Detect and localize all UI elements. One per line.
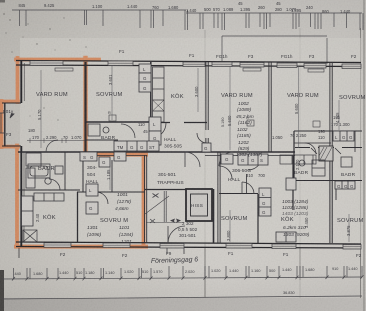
orange bay left edge: [0, 101, 3, 147]
dim line vardrum1: [27, 140, 85, 142]
window F1 kok4: [272, 244, 296, 249]
stair arrows: [170, 219, 175, 224]
top dim line right: [186, 12, 362, 14]
hall304 right wall: [111, 160, 113, 192]
window left apt: [30, 61, 63, 66]
window F3 vardrum2: [240, 63, 264, 68]
door sovrum3: [241, 182, 243, 194]
corner stub below plan: [18, 248, 20, 258]
closet G sovrum2: [139, 73, 151, 82]
slanted ticks bottom dim: [12, 275, 364, 280]
stair top wall: [145, 189, 186, 191]
right column wall: [293, 131, 295, 180]
closet G vardrum2: [202, 143, 211, 152]
window F2 sovrum1: [103, 243, 130, 248]
badr1 right wall: [64, 152, 66, 190]
door vardrum2: [197, 133, 207, 143]
closet G hall305 upper: [149, 117, 161, 131]
orange bottom edge: [16, 245, 146, 249]
closet row G G G sovrum4: [335, 181, 355, 189]
door badr2: [121, 124, 135, 138]
window kok2: [183, 62, 205, 67]
counter kok4 bottom: [276, 232, 296, 242]
party wall apt2/apt3: [268, 62, 270, 152]
door hall306 left: [219, 166, 232, 179]
balcony right side: [326, 38, 328, 64]
fold crease right-center: [299, 28, 301, 298]
orange left-lower vertical: [15, 146, 19, 247]
small x lower: [150, 219, 155, 223]
overall line: [2, 296, 362, 299]
closet row hall304 below corridor: [80, 152, 97, 161]
stair stringer double line: [163, 191, 165, 222]
orange mid horizontal: [82, 153, 146, 157]
fold crease left-center: [204, 30, 206, 298]
small unit text block stair: [178, 221, 198, 238]
left bay bottom jog wall: [2, 145, 21, 147]
right badr2 box: [341, 157, 352, 167]
orange bay bottom jog: [2, 145, 19, 149]
top dim line left: [12, 9, 186, 11]
arrow for F01v: [10, 114, 14, 119]
wall closets right of sovrum2: [150, 62, 152, 122]
fold crease segments in bottom band: [204, 248, 206, 297]
kitchen counter kok4: [280, 155, 316, 164]
dark left page edge bottom: [0, 270, 4, 311]
party wall kok2/vardrum2: [205, 62, 207, 130]
door vardrum1: [46, 140, 58, 152]
party wall apt3/apt4 lower: [329, 152, 331, 243]
door trapphus left: [185, 152, 200, 167]
left bay top jog wall: [2, 102, 21, 104]
party wall apt3/apt4 upper: [329, 62, 331, 152]
entrance porch: [167, 248, 184, 254]
left exterior wall upper: [20, 60, 22, 103]
door trapphus right: [219, 152, 233, 166]
badr door leaf right: [311, 148, 317, 154]
vardrum3 right closet wall: [354, 131, 356, 152]
entrance F9: [160, 244, 184, 249]
window center lines: [30, 63, 361, 247]
door kok1: [49, 179, 60, 190]
badr row top wall right: [294, 130, 362, 132]
badr row mid wall right: [294, 142, 331, 144]
small box kok4 top: [286, 178, 296, 190]
wall stair / sovrum3: [217, 152, 219, 243]
stair bottom landing line: [146, 222, 184, 224]
closet G G S hall306: [238, 154, 268, 165]
stair X mark: [153, 194, 159, 198]
unit number labels: [86, 137, 251, 186]
bottom dim numbers: [15, 267, 358, 295]
balcony left side: [221, 36, 223, 61]
window F2 sovrum4: [343, 245, 361, 250]
window F2 sovrum3: [342, 64, 361, 69]
orange left-upper vertical: [16, 58, 20, 102]
closet badr1 left stack: [26, 168, 35, 188]
bottom page strip: [0, 0, 1, 1]
window F3 vardrum3: [304, 64, 326, 69]
window F2 kok1: [44, 243, 71, 248]
closet row TM G G ST corridor: [114, 141, 159, 151]
kok1 / sovrum1 wall: [77, 192, 79, 243]
closet row L G G right: [333, 131, 354, 141]
badr2 fixtures: [88, 124, 100, 136]
closet G hall305 lower: [149, 131, 161, 145]
ticks: [13, 268, 15, 279]
top-left corner blob: [0, 0, 5, 3]
closet stack kok4: [259, 188, 271, 216]
closet G2 sovrum2: [139, 82, 151, 92]
door hall304: [96, 192, 108, 204]
closet L sovrum2: [139, 64, 151, 73]
balcony top line: [222, 35, 327, 37]
corridor second line: [84, 155, 147, 157]
kitchen counter kok1: [34, 193, 64, 201]
closet letters: [83, 67, 354, 215]
sovrum4 left wall: [335, 180, 337, 200]
wall kok2 / hall305: [151, 122, 170, 124]
corridor top wall: [18, 151, 295, 153]
stair diagonal break: [145, 196, 169, 214]
door hall305: [151, 123, 166, 138]
hall304 / sovrum1 wall: [77, 191, 145, 193]
top dim numbers: [19, 1, 351, 14]
bottom exterior wall double line: [16, 242, 361, 244]
badr row bottom wall right: [294, 180, 362, 182]
party wall left apt lower / stair: [144, 155, 146, 243]
badr1 / kok1 wall: [18, 189, 80, 191]
left bay outer wall: [4, 103, 6, 146]
kitchen counter kok2: [153, 67, 165, 122]
orange right-lower vertical: [142, 154, 146, 245]
kok1 fridge boxes: [22, 196, 34, 226]
closet L sovrum1: [86, 184, 98, 196]
closet G hall306 left: [221, 154, 233, 164]
hall304 left wall: [82, 155, 84, 192]
tick drops left: [25, 10, 27, 26]
badr row inner wall right: [295, 147, 310, 149]
closet G sovrum1: [86, 202, 98, 214]
bottom dim line: [2, 277, 362, 279]
window FG1h vardrum2: [212, 62, 232, 67]
window FG1h vardrum3: [277, 63, 297, 68]
vertical dim lines inside rooms: [41, 66, 349, 242]
door hall306 right: [248, 156, 262, 170]
orange bay top jog: [1, 100, 18, 104]
badr2 lower wall: [85, 139, 118, 141]
sink badr1: [55, 166, 63, 174]
closet badr1 top row: [26, 153, 41, 166]
radiators under windows: [55, 68, 324, 127]
party wall apt1/apt2: [84, 62, 86, 152]
plan interior lighter paper: [20, 38, 361, 244]
door right badr: [305, 143, 316, 154]
right badr shower: [312, 160, 325, 176]
right page edge lines: [360, 28, 362, 298]
stair entrance door: [168, 226, 185, 243]
top exterior wall double line: [16, 61, 361, 63]
left exterior wall lower: [20, 146, 22, 246]
orange right-upper vertical: [83, 58, 87, 154]
tick drops right: [199, 13, 201, 29]
rotated dims: [35, 74, 351, 241]
stairwell right wall: [213, 189, 215, 243]
window F1 sovrum2: [108, 61, 133, 66]
pantry box kok1: [23, 230, 37, 242]
scan speckles: [3, 13, 86, 120]
window F1 sovrum3: [226, 244, 252, 249]
sovrum3 / kok4 wall: [257, 194, 259, 243]
wc badr1: [45, 178, 51, 184]
orange top edge: [1, 58, 146, 247]
kok4 closet wall: [292, 155, 294, 210]
bay window F01v: [0, 113, 14, 133]
bathtub badr1: [28, 164, 50, 178]
wall betw sovrum2 / badr2: [85, 121, 150, 123]
